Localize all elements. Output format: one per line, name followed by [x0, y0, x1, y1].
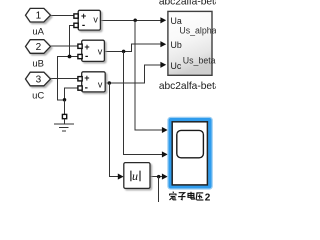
ground — [54, 119, 74, 131]
arrowhead scope input 2 — [162, 151, 168, 157]
scope screen — [177, 130, 204, 157]
node D (abs out branch) — [157, 175, 161, 179]
VM1 + port — [74, 14, 78, 18]
arrowhead Uc — [160, 62, 166, 68]
input port 1 — [26, 8, 51, 22]
ground port square — [62, 114, 66, 118]
wire node D down (cut off) — [158, 177, 160, 202]
input port 2 — [26, 40, 51, 54]
VM2 - port — [78, 54, 82, 58]
svg-text:1: 1 — [36, 11, 42, 22]
wire node C down to abs input — [109, 83, 118, 177]
arrowhead scope input 3 — [162, 174, 168, 180]
svg-text:-: - — [85, 51, 88, 62]
svg-text:uC: uC — [32, 91, 44, 102]
svg-text:v: v — [98, 79, 103, 89]
svg-text:v: v — [93, 15, 98, 25]
wire VM1 out to Ua port — [100, 19, 160, 21]
node E — [68, 55, 72, 59]
svg-text:Us_beta: Us_beta — [183, 55, 216, 65]
wire VM1 minus down to node E — [70, 25, 75, 56]
label 定子电压2 (drawn glyphs) — [169, 192, 203, 200]
VM1 - port — [74, 23, 78, 27]
wire node A down to scope input 1 — [135, 20, 162, 130]
arrowhead abs input — [118, 174, 124, 180]
voltage measurement VM2 — [82, 40, 105, 61]
scope 定子电压2 — [168, 118, 212, 189]
VM3 + port — [78, 77, 82, 81]
svg-text:3: 3 — [36, 74, 42, 85]
电 — [190, 192, 192, 199]
svg-text:2: 2 — [36, 42, 42, 53]
VM3 - port — [78, 86, 82, 90]
svg-text:v: v — [98, 47, 103, 57]
wire node E to VM2 minus — [70, 56, 79, 58]
voltage measurement VM3 — [82, 72, 106, 92]
wire hex2 to VM2 + — [51, 45, 79, 47]
wire VM2 out to Ub port (with jog) — [104, 44, 160, 51]
svg-text:abc2alfa-beta: abc2alfa-beta — [159, 81, 216, 92]
wire VM3 out to Uc port (with jog) — [105, 65, 161, 83]
voltage measurement VM1 — [78, 10, 100, 30]
svg-text:2: 2 — [205, 192, 211, 202]
svg-text:Ub: Ub — [171, 40, 182, 50]
node C (Uc / abs branch) — [108, 81, 112, 85]
压 — [196, 192, 203, 194]
svg-text:Ua: Ua — [171, 16, 182, 26]
svg-text:Uc: Uc — [171, 61, 182, 71]
node B (Ub branch) — [122, 50, 126, 54]
svg-text:abc2alfa-beta: abc2alfa-beta — [159, 0, 216, 7]
arrowhead scope input 1 — [162, 127, 168, 133]
定 — [172, 192, 175, 193]
wire hex3 to VM3 + — [51, 78, 79, 80]
scope blue frame — [170, 120, 210, 187]
VM2 + port — [78, 44, 82, 48]
node F — [63, 98, 67, 102]
wire node F to ground — [64, 100, 66, 115]
子 — [179, 193, 185, 195]
svg-text:-: - — [82, 20, 85, 31]
scope black frame — [172, 122, 207, 185]
svg-text:-: - — [85, 83, 88, 94]
svg-text:Us_alpha: Us_alpha — [179, 26, 216, 36]
svg-text:uA: uA — [32, 27, 44, 38]
scope glow — [168, 118, 212, 189]
wire hex1 to VM1 + — [51, 15, 75, 17]
svg-text:u: u — [132, 169, 138, 183]
arrowhead Ub — [160, 41, 166, 47]
subsystem abc2alfa-beta — [168, 11, 212, 75]
wire abs out to scope input 3 — [150, 176, 162, 178]
wire VM3 minus down to node F — [65, 88, 79, 99]
wire node B down to scope input 2 — [124, 51, 163, 154]
arrowhead Ua — [160, 17, 166, 23]
svg-text:uB: uB — [32, 59, 44, 70]
node A (Ua branch) — [133, 19, 137, 23]
input port 3 — [26, 72, 51, 86]
wire node E left and down (minus chain) — [58, 57, 70, 100]
abs block |u| — [124, 163, 150, 189]
